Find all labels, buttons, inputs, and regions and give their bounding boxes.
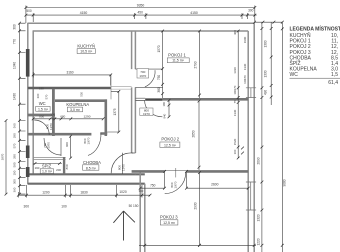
ticks right inside chain — [237, 30, 240, 160]
svg-text:570: 570 — [45, 94, 49, 99]
svg-text:4150: 4150 — [80, 11, 88, 15]
ticks kuchyn 3160 — [32, 74, 112, 77]
svg-text:1,5: 1,5 — [331, 72, 338, 78]
ticks chodba 900 — [69, 135, 72, 160]
svg-text:300: 300 — [248, 8, 254, 12]
svg-text:190: 190 — [35, 166, 40, 170]
dim line pokoj1 2790 — [199, 31, 201, 98]
svg-text:450: 450 — [138, 11, 144, 15]
ticks right total — [281, 28, 284, 247]
dim line pokoj2 2650 — [198, 101, 200, 170]
svg-text:8,5 m²: 8,5 m² — [86, 166, 97, 170]
svg-text:2930: 2930 — [193, 202, 197, 209]
dim line spiz width — [33, 163, 62, 165]
ticks top — [25, 6, 257, 9]
dim line koupelna 1375 — [107, 91, 119, 132]
svg-text:750: 750 — [150, 183, 156, 187]
svg-text:10,5 m²: 10,5 m² — [80, 50, 93, 54]
svg-text:2870: 2870 — [1, 153, 5, 160]
svg-text:300: 300 — [139, 189, 144, 193]
svg-text:300: 300 — [233, 30, 237, 35]
room label WC — [36, 101, 50, 112]
svg-text:1330: 1330 — [233, 109, 237, 116]
svg-text:POKOJ 1: POKOJ 1 — [168, 52, 186, 57]
dimension ticks — [5, 6, 284, 247]
wall pokoj1-pokoj2 — [162, 98, 248, 101]
svg-text:360: 360 — [13, 187, 17, 192]
svg-text:50 150: 50 150 — [129, 204, 139, 208]
svg-text:9080: 9080 — [283, 179, 287, 186]
svg-text:170: 170 — [243, 75, 247, 80]
svg-text:1300: 1300 — [264, 40, 268, 47]
ticks left chain — [18, 22, 21, 196]
svg-text:3,0 m²: 3,0 m² — [70, 108, 81, 112]
wall pokoj3 left outer — [139, 173, 141, 252]
svg-text:180: 180 — [162, 101, 166, 106]
dim line wc-koupelna widths — [33, 118, 103, 120]
svg-text:1970: 1970 — [139, 74, 146, 78]
svg-text:560: 560 — [13, 123, 17, 128]
ticks koupelna 1375 — [117, 90, 120, 133]
svg-text:1900: 1900 — [243, 36, 247, 43]
ticks pokoj3 2930 — [198, 171, 201, 247]
room label POKOJ 2 — [160, 137, 180, 148]
svg-text:POKOJ 2: POKOJ 2 — [161, 137, 179, 142]
wall left inner — [32, 30, 34, 173]
svg-text:61,4: 61,4 — [328, 80, 338, 86]
svg-text:750: 750 — [157, 75, 161, 81]
svg-text:9350: 9350 — [137, 3, 145, 7]
wall central left face — [131, 31, 133, 153]
ticks bottom inner — [143, 244, 255, 247]
wall central right face — [134, 31, 136, 174]
svg-text:100: 100 — [243, 79, 247, 84]
ticks pokoj2 small — [241, 147, 244, 155]
dim line left outer total — [5, 121, 7, 195]
svg-text:1290: 1290 — [84, 114, 91, 118]
svg-text:WC: WC — [290, 72, 299, 78]
dim line right outer chain1 — [261, 22, 263, 252]
ticks pokoj2 2650 — [198, 100, 201, 169]
svg-text:1330: 1330 — [264, 70, 268, 77]
door wc arc — [34, 120, 49, 135]
door koupelna arc — [88, 133, 101, 156]
wall spiz top — [33, 157, 65, 159]
svg-text:300: 300 — [24, 204, 30, 208]
svg-text:1520: 1520 — [233, 138, 237, 145]
dim line right outer chain2 — [270, 22, 272, 105]
svg-text:900: 900 — [65, 142, 69, 147]
svg-text:300: 300 — [13, 24, 17, 30]
wall right inner — [247, 31, 249, 252]
dim line kuchyn 3160 — [33, 72, 111, 86]
svg-text:1970: 1970 — [174, 181, 178, 188]
ticks right chain1 — [261, 27, 264, 247]
wall top outer — [28, 22, 254, 24]
dim ext top — [26, 6, 255, 24]
dim line bottom chain — [18, 194, 150, 196]
svg-text:LEGENDA MÍSTNOSTÍ:: LEGENDA MÍSTNOSTÍ: — [290, 24, 340, 32]
svg-text:1970: 1970 — [121, 164, 125, 171]
svg-text:1970: 1970 — [87, 137, 91, 144]
svg-text:800: 800 — [39, 115, 44, 119]
svg-text:12,5 m²: 12,5 m² — [164, 144, 177, 148]
svg-text:290: 290 — [13, 154, 17, 159]
svg-text:100: 100 — [233, 149, 237, 154]
svg-text:11,5 m²: 11,5 m² — [172, 59, 184, 63]
room label POKOJ 3 — [160, 215, 178, 225]
svg-text:2600: 2600 — [211, 183, 219, 187]
dimension texts rotated — [1, 24, 287, 245]
wall right outer — [253, 23, 255, 252]
window left wall chodba (dark bar) — [26, 146, 30, 159]
dim line top 9350 — [26, 7, 255, 9]
dim line 750 / 2600 below pokoj2 — [140, 172, 248, 189]
ticks wc widths — [32, 117, 105, 120]
svg-text:75: 75 — [233, 100, 237, 104]
wall wc bottom — [28, 114, 55, 117]
wall wing bottom inner — [28, 173, 145, 175]
wall wc-koupelna — [52, 89, 55, 136]
svg-text:KUCHYŇ: KUCHYŇ — [77, 43, 95, 48]
room label KOUPELNA — [66, 102, 89, 112]
svg-text:190: 190 — [13, 170, 17, 175]
svg-text:170: 170 — [233, 85, 237, 90]
dim line right total 9080 — [281, 22, 283, 252]
svg-text:490: 490 — [264, 90, 268, 96]
svg-text:770: 770 — [13, 39, 17, 45]
ticks pokoj1 inner chain — [161, 30, 164, 95]
door kitchen-pokoj1 arc — [145, 70, 155, 87]
svg-text:1570: 1570 — [157, 45, 161, 52]
label door 800/1970 pokoj2 — [140, 108, 153, 116]
svg-text:4150: 4150 — [190, 11, 198, 15]
svg-text:1020: 1020 — [119, 190, 127, 194]
dim line door pokoj1-2 — [168, 100, 170, 117]
room label KUCHYN — [77, 43, 95, 53]
dim line left chain — [19, 23, 21, 194]
window left wall kitchen (dark bar) — [26, 49, 30, 77]
window right wall pokoj3 — [246, 182, 256, 210]
svg-text:1970: 1970 — [143, 112, 150, 116]
svg-text:2790: 2790 — [193, 61, 197, 68]
wall koupelna right — [105, 99, 108, 136]
svg-text:12,5 m²: 12,5 m² — [163, 221, 176, 225]
door pokoj1-pokoj2 arc — [145, 100, 163, 116]
wall left outer — [27, 23, 29, 185]
svg-text:1320: 1320 — [256, 214, 260, 221]
svg-text:500: 500 — [26, 9, 32, 13]
dim ext left — [20, 23, 26, 194]
ticks right chain2 — [270, 27, 273, 98]
label door 700/1970 — [137, 69, 149, 78]
dim line top chain 500/4150/450/4150/300 — [26, 14, 257, 16]
legend underline — [290, 77, 340, 79]
room label SPIZ — [35, 163, 62, 173]
dim line top right short — [255, 21, 283, 23]
room label CHODBA — [83, 160, 102, 170]
svg-text:860: 860 — [65, 164, 69, 169]
svg-text:100: 100 — [233, 90, 237, 95]
ticks bottom chain — [17, 194, 151, 197]
svg-text:530: 530 — [80, 92, 84, 97]
ticks 750 2600 — [139, 187, 250, 190]
svg-text:100: 100 — [61, 204, 67, 208]
dim line right inside chain — [237, 31, 239, 158]
svg-text:360: 360 — [36, 93, 40, 98]
svg-text:200: 200 — [56, 168, 61, 172]
dim ext bottom — [18, 185, 142, 198]
svg-text:380: 380 — [157, 87, 161, 93]
svg-text:2650: 2650 — [192, 130, 196, 137]
svg-text:1340: 1340 — [13, 62, 17, 69]
svg-text:1970: 1970 — [49, 123, 53, 130]
svg-text:1200: 1200 — [42, 190, 50, 194]
wall chodba north (koupelna bottom) — [28, 132, 107, 135]
wall top inner — [33, 30, 248, 32]
ticks door pokoj1-2 — [168, 99, 171, 118]
svg-text:3160: 3160 — [66, 71, 73, 75]
svg-text:300: 300 — [13, 179, 17, 184]
dimension texts horizontal — [24, 3, 254, 208]
ticks pokoj2|3 door opening — [163, 170, 188, 173]
door pokoj2-pokoj3 arc — [165, 173, 186, 194]
svg-text:680: 680 — [60, 115, 65, 119]
svg-text:1,5 m²: 1,5 m² — [38, 107, 49, 111]
wall pokoj2-pokoj3 — [132, 170, 249, 173]
dim line pokoj1 1570/750/380 — [162, 31, 164, 98]
svg-text:290: 290 — [13, 133, 17, 138]
svg-text:CHODBA: CHODBA — [83, 160, 101, 165]
svg-text:ŠPÍŽ: ŠPÍŽ — [42, 163, 52, 168]
door spiz arc — [44, 138, 61, 155]
svg-text:POKOJ 3: POKOJ 3 — [160, 215, 178, 220]
wall pokoj3 left inner — [144, 184, 146, 252]
wall corridor edge line — [110, 75, 112, 100]
wall koupelna top — [55, 99, 107, 102]
svg-text:2090: 2090 — [256, 157, 260, 164]
dim line chodba 900 — [70, 136, 72, 158]
window left wall spiz (dark bar) — [26, 167, 30, 177]
svg-text:WC: WC — [39, 101, 46, 106]
north arrow — [113, 211, 134, 241]
svg-text:1830: 1830 — [80, 190, 88, 194]
svg-text:1970: 1970 — [47, 142, 51, 149]
svg-text:1330: 1330 — [243, 63, 247, 70]
svg-text:100: 100 — [50, 112, 55, 116]
door chodba-pokoj2 arc — [111, 153, 133, 173]
wall kitchen south — [28, 87, 111, 89]
wall wing bottom outer — [28, 183, 145, 185]
svg-text:1375: 1375 — [113, 108, 117, 115]
svg-text:1430: 1430 — [13, 93, 17, 100]
dim line pokoj3 2930 — [199, 173, 201, 246]
window right wall pokoj1 — [246, 88, 256, 98]
svg-text:940: 940 — [162, 113, 166, 118]
svg-text:580: 580 — [13, 162, 17, 167]
svg-text:190: 190 — [39, 87, 44, 91]
dim line bottom inner pokoj3 — [139, 244, 256, 246]
svg-text:570: 570 — [13, 143, 17, 148]
svg-text:KOUPELNA: KOUPELNA — [66, 102, 89, 107]
svg-text:1,0 m²: 1,0 m² — [42, 170, 53, 174]
wall lintel passage kitchen-chodba — [111, 87, 132, 89]
svg-text:1330: 1330 — [233, 67, 237, 74]
ticks spiz width — [34, 162, 61, 165]
wall spiz right — [63, 157, 65, 174]
svg-text:1220: 1220 — [256, 238, 260, 245]
room label POKOJ 1 — [167, 52, 189, 62]
